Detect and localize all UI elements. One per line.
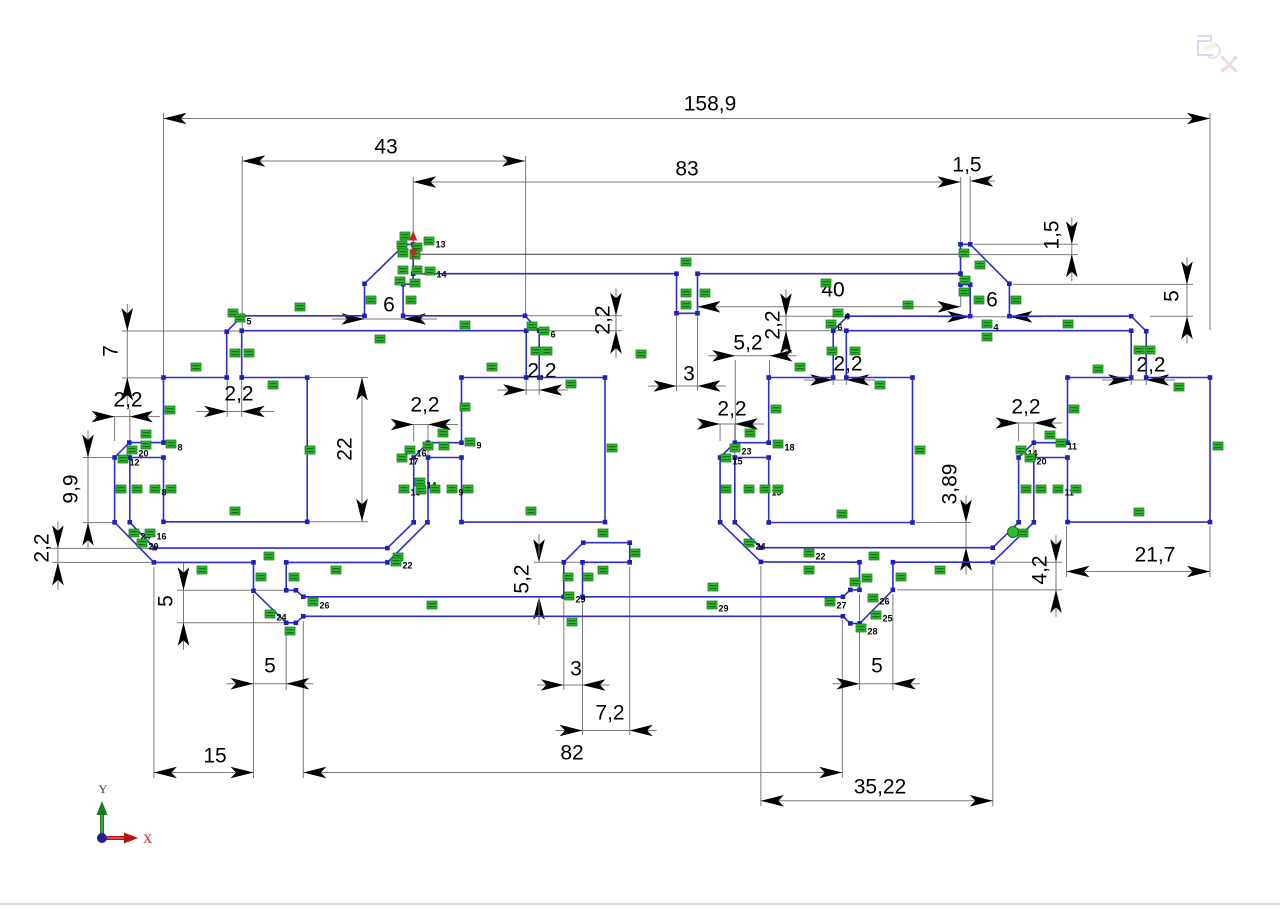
wire right peak notch [961, 284, 971, 286]
wire room4 right [1209, 378, 1211, 523]
wire notch left wall [676, 274, 678, 314]
ext 5,2r left [734, 360, 736, 441]
dimline 2,2 slot1 [196, 411, 274, 413]
dimension 5 left step [183, 563, 185, 650]
wire room2 hook inner v [427, 458, 429, 523]
svg-text:25: 25 [883, 614, 893, 624]
wire funnel2 bottom diagonal [843, 616, 851, 623]
svg-text:4: 4 [845, 312, 850, 322]
wire notch bottom [677, 312, 698, 314]
svg-text:15: 15 [733, 457, 743, 467]
ext 1,5 top right [969, 176, 971, 244]
ext 2,2 hook1 l [114, 417, 116, 441]
ext 43 left [241, 156, 243, 330]
wire peak diagonal [365, 244, 405, 283]
svg-text:3: 3 [570, 658, 582, 681]
svg-text:158,9: 158,9 [684, 93, 737, 116]
wire room3 right [912, 378, 914, 523]
wire room2 hook outer h [428, 442, 462, 444]
ext 3 left [676, 316, 678, 391]
ext 2,2 hook3 l [719, 424, 721, 441]
ext 3tab right / 7,2 left [582, 601, 584, 735]
ext 158,9 left [163, 113, 165, 376]
wire room4 left upper [1067, 378, 1069, 443]
ext 2,2 ll top [52, 547, 152, 549]
dimension 5 right roof [1186, 257, 1188, 343]
wire outer wall left [114, 458, 116, 523]
svg-text:24: 24 [277, 613, 287, 623]
wire right chimney left wall [969, 285, 971, 317]
ext 22 bottom [309, 521, 368, 523]
wire chimney left wall [364, 284, 366, 316]
svg-text:2,2: 2,2 [592, 305, 615, 334]
dimension 2,2 room3 hook [697, 418, 720, 430]
wire room4 hook diagonal [1019, 443, 1034, 458]
svg-text:15: 15 [203, 745, 226, 768]
wire room2 top b [539, 377, 605, 379]
wire room2 hook inner h [428, 457, 462, 459]
wire long top line left [413, 273, 676, 275]
wire room1 top b [242, 377, 308, 379]
ext 35,22 left (long) [760, 566, 762, 806]
dimension 5,2 tab [533, 539, 545, 562]
ext 4,2 bottom (long) [897, 589, 1062, 591]
ext 5r upper [1013, 283, 1193, 285]
wire slot4 left wall [1130, 331, 1132, 378]
dimension 9,9 [87, 431, 89, 550]
wire peak right wall [412, 244, 414, 284]
wire room2 left lower [461, 458, 463, 523]
wire inner wall left [129, 458, 131, 523]
ext 15 right / 5 left [253, 594, 255, 778]
wire chimney right wall [402, 284, 404, 316]
wire room3 top a [769, 377, 834, 379]
svg-text:28: 28 [868, 627, 878, 637]
wire step2 vertical b [892, 562, 894, 590]
wire room1 hook outer h [129, 442, 163, 444]
wire diagonal up to room4 hook inner [993, 522, 1034, 562]
ext 9,9 bottom [83, 522, 113, 524]
svg-text:11: 11 [1068, 442, 1078, 452]
ext 3 right [697, 316, 699, 391]
dimension 2,2 lower left [57, 521, 59, 589]
svg-text:20: 20 [149, 542, 159, 552]
wire funnel2 bottom h [850, 622, 859, 624]
svg-text:1,5: 1,5 [952, 154, 981, 177]
svg-text:13: 13 [436, 240, 446, 250]
ext 5,2 tab top [534, 561, 581, 563]
ext 2,2rr top [780, 315, 845, 317]
wire step1 vertical a [253, 562, 255, 590]
svg-text:16: 16 [157, 532, 167, 542]
ext 2,2 hook2 r [427, 425, 429, 457]
sketch origin marker (red) [409, 231, 417, 241]
svg-text:5: 5 [155, 595, 178, 607]
dimline 3 [648, 385, 726, 387]
wire room4 hook outer h [1034, 442, 1068, 444]
dimension 5 bottom right [833, 683, 920, 685]
wire room1 bottom [164, 521, 308, 523]
wire rail top b [583, 596, 843, 598]
svg-text:22: 22 [334, 437, 357, 460]
ext 2,2 slot2 r [538, 379, 540, 395]
wire room1 left lower [163, 458, 165, 522]
dimline 2,2 hook1 [95, 416, 160, 418]
ext 5rs left [859, 594, 861, 690]
svg-text:20: 20 [139, 449, 149, 459]
svg-text:2,2: 2,2 [31, 533, 54, 562]
wire room2 right [604, 378, 606, 523]
svg-text:2,2: 2,2 [224, 383, 253, 406]
svg-text:5: 5 [264, 655, 276, 678]
wire room2 bottom [462, 521, 606, 523]
ext 2,2 slot4 l [1130, 379, 1132, 385]
ext 5step top [177, 589, 294, 591]
svg-text:6: 6 [551, 330, 556, 340]
dim tail 5,2 tab [538, 534, 540, 556]
svg-text:5,2: 5,2 [733, 332, 762, 355]
svg-text:2,2: 2,2 [1136, 354, 1165, 377]
svg-text:5,2: 5,2 [511, 564, 534, 593]
ext 3,89 top [916, 522, 971, 524]
ext 9,9 top [83, 457, 113, 459]
wire slot3 right wall [845, 331, 847, 378]
dimline 2,2 slot2 [497, 389, 568, 391]
ext 21,7 left [1066, 526, 1068, 577]
svg-text:6: 6 [383, 294, 395, 317]
wire room3 hook inner h [735, 457, 769, 459]
dimension 15 [154, 772, 254, 774]
ext 5,2r right [769, 360, 771, 376]
wire slot1 right wall [241, 331, 243, 378]
wire slot3 left wall [832, 331, 834, 378]
wire room4 bottom [1068, 521, 1211, 523]
ext 3tab left [563, 601, 565, 690]
wire diagonal inner right half [735, 522, 761, 547]
svg-text:2,2: 2,2 [1011, 396, 1040, 419]
svg-text:9,9: 9,9 [60, 474, 83, 503]
wire tab right v [629, 543, 631, 563]
filleted vertex marker (green circle) [1008, 527, 1019, 538]
wire funnel2 top h [850, 589, 859, 591]
ext 7 lower [122, 377, 162, 379]
wire roof-top right b [1009, 315, 1131, 317]
svg-text:7: 7 [100, 345, 123, 357]
svg-text:29: 29 [719, 604, 729, 614]
svg-text:18: 18 [785, 443, 795, 453]
dimension 2,2 room4 slot [1108, 374, 1131, 386]
svg-text:14: 14 [437, 270, 447, 280]
dimension 2,2 room2 hook [391, 419, 414, 431]
svg-text:3,89: 3,89 [939, 464, 962, 505]
wire diagonal outer right half [720, 522, 761, 562]
svg-text:4,2: 4,2 [1029, 555, 1052, 584]
wire funnel1 top h [286, 589, 296, 591]
svg-text:22: 22 [403, 561, 413, 571]
wire roof-top right a [848, 315, 971, 317]
wire slot4 right wall [1145, 331, 1147, 377]
wire bottom outer line left a [154, 561, 254, 563]
constraint markers (green) [400, 232, 410, 240]
svg-text:12: 12 [130, 458, 140, 468]
ext 1,5v lower right [961, 254, 1079, 256]
wire rail top a [303, 596, 564, 598]
wire room2 hook diagonal [414, 443, 428, 458]
dimension 4,2 [1055, 535, 1057, 617]
wire tab inner h [583, 561, 630, 563]
dimline 2,2 slot3 [804, 379, 875, 381]
svg-text:2,2: 2,2 [833, 353, 862, 376]
svg-text:24: 24 [756, 542, 766, 552]
svg-text:2,2: 2,2 [410, 394, 439, 417]
ext 1,5v upper [974, 243, 1078, 245]
wire roof-bottom left [242, 330, 527, 332]
svg-text:22: 22 [816, 552, 826, 562]
dimension 2,2 room1 slot [204, 406, 227, 418]
ext 2,2rr bottom [780, 330, 844, 332]
wire tab diagonal [564, 543, 583, 563]
wire room3 bottom [769, 522, 913, 524]
dimension 43 [242, 160, 525, 162]
ext 2,2 slot3 l [832, 379, 834, 385]
dimension 22 [361, 378, 363, 522]
wire long top line right [698, 273, 961, 275]
dimline 6 right [937, 316, 1042, 318]
svg-text:Y: Y [99, 782, 108, 796]
dimension 35,22 [761, 800, 993, 802]
wire step1 vertical b [285, 562, 287, 590]
svg-text:83: 83 [675, 158, 698, 181]
svg-text:5: 5 [247, 317, 252, 327]
wire bottom inner line left [155, 547, 388, 549]
svg-text:6: 6 [986, 289, 998, 312]
ext 43 right [525, 156, 527, 316]
wire roof chamfer right-half right [1131, 316, 1146, 331]
ext 2,2 hook4 l [1018, 423, 1020, 441]
wire room4 hook inner h [1034, 457, 1068, 459]
wire rail bottom [303, 615, 843, 617]
svg-text:7,2: 7,2 [595, 702, 624, 725]
wire room4 hook inner v [1033, 458, 1035, 523]
dimension 6 left [342, 313, 365, 325]
ext 5step bottom [177, 622, 294, 624]
wire funnel1 bottom diagonal [296, 616, 303, 623]
ext 2,2lr top [527, 315, 622, 317]
svg-text:43: 43 [374, 136, 397, 159]
dimension 7,2 [556, 730, 657, 732]
ext 7 upper (long) [122, 330, 241, 332]
svg-text:X: X [143, 831, 153, 846]
ext 158,9 right [1209, 113, 1211, 330]
wire roof chamfer right-half left [833, 316, 847, 331]
wire room1 hook inner h [130, 457, 164, 459]
ext 5 right [285, 627, 287, 690]
wire room3 left upper [768, 378, 770, 443]
dimension 83 [413, 181, 960, 183]
wire room3 hook inner v [734, 458, 736, 523]
faded toolbar icon [1198, 36, 1236, 71]
wire peak notch [403, 283, 413, 285]
dimension 2,2 right roof end [785, 289, 787, 358]
dimline 2,2 hook2 [395, 424, 458, 426]
ext 5r lower [1150, 315, 1193, 317]
wire funnel1 bottom h [286, 622, 296, 624]
ext 21,7 right [1209, 526, 1211, 577]
dimension 40 [698, 306, 961, 308]
ext 5rs right [892, 594, 894, 690]
svg-text:35,22: 35,22 [854, 776, 907, 799]
ext 2,2 hook3 r [734, 424, 736, 456]
wire room1 top a [164, 377, 227, 379]
wire right peak left wall [960, 244, 962, 284]
wire room3 hook outer v [719, 458, 721, 523]
dimline 2,2 hook4 [999, 422, 1062, 424]
dimension 3 tab [537, 684, 610, 686]
wire notch right wall [697, 274, 699, 314]
svg-text:5: 5 [1161, 290, 1184, 302]
dimension 5 bottom left [227, 683, 314, 685]
dimension 6 right [947, 311, 970, 323]
wire room3 hook diagonal [720, 443, 735, 458]
wire right peak diagonal [970, 244, 1009, 283]
svg-text:20: 20 [1037, 457, 1047, 467]
wire tab inner v [582, 562, 584, 597]
ext 83-40 right [960, 177, 962, 307]
ext 2,2 slot2 l [525, 379, 527, 395]
wire room3 left lower [768, 458, 770, 523]
ext 35,22 right (long) [992, 566, 994, 806]
ext 2,2 hook2 l [413, 425, 415, 442]
svg-text:29: 29 [576, 595, 586, 605]
page bottom border [0, 903, 1280, 905]
dimline 2,2 slot4 [1102, 379, 1175, 381]
wire diagonal outer left [115, 522, 154, 562]
dimension 21,7 [1067, 571, 1211, 573]
wire room2 left upper [461, 378, 463, 443]
wire diagonal up to room2 hook outer [387, 522, 413, 548]
ext 1,5v lower (long dark) [413, 253, 960, 255]
ext 2,2 slot3 r [845, 379, 847, 385]
wire room1 right [306, 378, 308, 522]
dimline 6 left [332, 318, 437, 320]
svg-text:8: 8 [178, 443, 183, 453]
ext 2,2 slot4 r [1145, 379, 1147, 385]
dimension 3 notch [654, 380, 677, 392]
wire room3 hook outer h [735, 442, 769, 444]
wire tab top [583, 542, 630, 544]
wire roof-bottom right [846, 330, 1131, 332]
wire roof chamfer right [525, 316, 539, 331]
svg-text:1,5: 1,5 [1041, 220, 1064, 249]
wire bottom outer line left b [286, 561, 387, 563]
svg-text:27: 27 [837, 601, 847, 611]
wire room4 top b [1146, 377, 1210, 379]
dimension 2,2 room1 hook [92, 411, 115, 423]
svg-text:2,2: 2,2 [527, 360, 556, 383]
svg-text:26: 26 [880, 597, 890, 607]
wire step2 vertical a [859, 562, 861, 590]
sketch vertex points [240, 314, 245, 319]
wire diagonal inner left [130, 522, 155, 548]
wire funnel2 top diagonal [843, 590, 850, 597]
dimension 1,5 vertical [1071, 217, 1073, 281]
wire room3 top b [846, 377, 912, 379]
ext 2,2 slot1 r [241, 379, 243, 417]
dimension 1,5 top [970, 180, 995, 182]
dimension 5,2 right roof [708, 355, 796, 357]
wire roof chamfer left [227, 316, 243, 332]
ext 2,2 hook1 r [129, 409, 131, 456]
svg-text:2,2: 2,2 [717, 398, 746, 421]
svg-text:17: 17 [409, 457, 419, 467]
wire room2 hook outer v [413, 458, 415, 523]
wire bottom outer line right b [893, 561, 993, 563]
svg-text:21,7: 21,7 [1135, 544, 1176, 567]
wire slot2 left wall [525, 331, 527, 378]
dimension 2,2 room4 hook [996, 417, 1019, 429]
ext 2,2 ll bottom [52, 561, 152, 563]
wire bottom inner line right [761, 547, 993, 549]
wire room1 hook diagonal [115, 443, 130, 458]
ext 15 left (long) [153, 567, 155, 778]
wire bottom outer line right a [761, 561, 860, 563]
ext 7,2 right [629, 567, 631, 735]
svg-text:5: 5 [871, 655, 883, 678]
svg-text:3: 3 [683, 363, 695, 386]
wire step1 long diagonal [254, 591, 287, 623]
wire slot1 left wall [226, 332, 228, 378]
dimension 82 [303, 772, 842, 774]
dimension 2,2 room3 slot [810, 374, 833, 386]
wire funnel1 top diagonal [296, 590, 303, 597]
dimension 7 [126, 304, 128, 405]
ext 22 top [309, 377, 368, 379]
svg-text:23: 23 [742, 447, 752, 457]
wire room4 hook outer v [1018, 458, 1020, 523]
svg-text:26: 26 [320, 601, 330, 611]
ext 82 left [302, 621, 304, 778]
svg-text:9: 9 [477, 441, 482, 451]
dimension 3,89 [965, 496, 967, 575]
wire room4 top a [1068, 377, 1132, 379]
ext 2,2 hook4 r [1033, 423, 1035, 456]
wire step2 long diagonal [860, 590, 893, 624]
wire slot2 right wall [538, 331, 540, 378]
svg-text:82: 82 [560, 742, 583, 765]
wire diagonal up to room2 hook inner [387, 522, 427, 562]
ext 5,2 tab bottom [534, 596, 563, 598]
wire diagonal up to room4 hook outer [993, 522, 1019, 547]
dimline 2,2 hook3 [700, 423, 764, 425]
dimension 2,2 room2 slot [503, 384, 526, 396]
wire roof-top left a [242, 315, 364, 317]
svg-text:2,2: 2,2 [762, 310, 785, 339]
wire roof-top left b [403, 315, 525, 317]
wire room4 left lower [1067, 458, 1069, 523]
ext 82 right [841, 620, 843, 778]
wire room1 left upper [163, 378, 165, 443]
wire right peak top [961, 243, 971, 245]
ext 83 left [412, 177, 414, 240]
svg-text:4: 4 [994, 323, 999, 333]
wire right chimney right wall [1008, 284, 1010, 317]
svg-text:6: 6 [838, 323, 843, 333]
ext 4,2 top [997, 561, 1062, 563]
ext 2,2lr bottom [528, 330, 622, 332]
dimension 2,2 left roof end [615, 289, 617, 358]
wire peak top [405, 243, 413, 245]
dimension 158,9 [164, 118, 1211, 120]
